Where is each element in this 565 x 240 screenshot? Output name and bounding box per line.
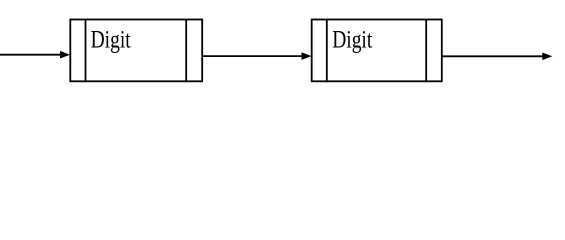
node 2 box outline — [312, 20, 442, 82]
svg-text:Digit: Digit — [332, 25, 373, 53]
node 2 right divider — [425, 19, 427, 83]
node 1 right divider — [185, 19, 187, 83]
node 2 left divider — [326, 19, 328, 83]
wire: outgoing arrow shaft from node 2 — [442, 55, 544, 57]
node 1 box outline — [70, 20, 202, 82]
node 1 label Digit — [91, 25, 132, 53]
wire: arrow shaft from node 1 to node 2 — [202, 55, 302, 57]
wire: incoming arrow shaft into node 1 — [0, 54, 61, 56]
arrowhead at end of list — [542, 53, 552, 61]
svg-text:Digit: Digit — [91, 25, 132, 53]
arrowhead into node 1 — [60, 51, 70, 59]
arrowhead into node 2 — [302, 52, 312, 60]
node 1 left divider — [85, 19, 87, 83]
node 2 label Digit — [332, 25, 373, 53]
